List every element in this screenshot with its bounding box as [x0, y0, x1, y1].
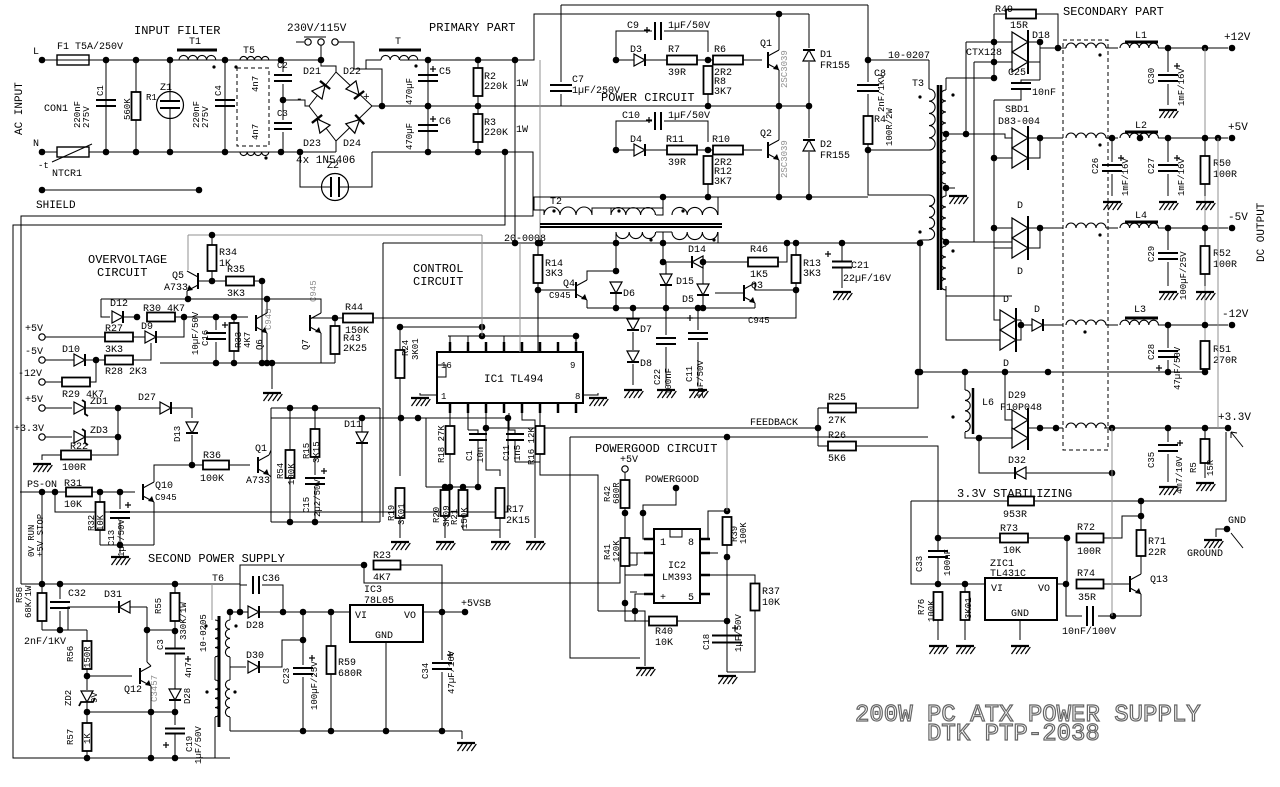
wire to L5c	[1040, 227, 1063, 229]
wire pin16 up	[449, 336, 451, 342]
wire R15 bottom	[314, 457, 316, 475]
svg-text:R15: R15	[302, 443, 312, 459]
wire Q13 emitter	[1140, 594, 1142, 616]
capacitor C19	[165, 729, 185, 734]
junction	[328, 609, 335, 616]
svg-text:D: D	[1017, 201, 1023, 212]
svg-text:L3: L3	[1134, 305, 1146, 316]
junction	[1109, 425, 1116, 432]
wire C32 bottom	[59, 611, 61, 630]
svg-text:680R: 680R	[338, 669, 362, 680]
svg-text:R7: R7	[668, 45, 680, 56]
junction	[439, 609, 446, 616]
junction	[1055, 45, 1062, 52]
svg-text:2nF/1KV: 2nF/1KV	[877, 74, 887, 112]
svg-text:35R: 35R	[1078, 593, 1096, 604]
diode D28 aux	[169, 689, 181, 700]
wire R26 out	[856, 446, 938, 538]
wire ic top rail	[400, 326, 482, 328]
wire to R37	[710, 575, 755, 584]
wire shield	[42, 189, 199, 191]
wire Dn12 o2	[1016, 330, 1021, 340]
wire D18 in2	[974, 61, 1012, 63]
svg-text:D83-004: D83-004	[998, 117, 1040, 128]
IC2 notch	[670, 529, 682, 537]
wire feedback horizontal	[486, 427, 818, 429]
wire R58 top	[41, 584, 43, 593]
svg-text:CTX128: CTX128	[966, 48, 1002, 59]
resistor R54	[286, 450, 295, 478]
wire T6 sec top	[229, 612, 231, 620]
IC2 right pin	[700, 538, 710, 541]
junction	[475, 149, 482, 156]
wire R46 up	[778, 243, 787, 262]
svg-text:L2: L2	[1135, 121, 1147, 132]
node GND	[1224, 526, 1231, 533]
junction	[475, 484, 482, 491]
junction	[196, 187, 203, 194]
wire Q10 collector	[154, 465, 180, 482]
junction	[144, 627, 151, 634]
svg-text:1W: 1W	[516, 79, 528, 90]
wire C22 top	[665, 308, 667, 335]
ground C13	[111, 557, 130, 565]
wire T2 sec tap	[662, 232, 664, 243]
wire Q3 base	[715, 292, 744, 294]
wire R33 bottom	[233, 351, 235, 363]
wire second supply rail	[21, 565, 364, 584]
phase dot	[234, 65, 237, 68]
wire to choke T	[366, 60, 381, 69]
svg-text:C25: C25	[1008, 68, 1026, 79]
phase dot	[552, 209, 555, 212]
junction	[1215, 135, 1222, 142]
svg-text:+5V: +5V	[1228, 122, 1248, 134]
junction	[776, 103, 783, 110]
svg-text:D28: D28	[183, 688, 193, 704]
svg-text:39R: 39R	[668, 68, 686, 79]
inductor L5 winding -5V	[1066, 223, 1106, 228]
wire C9 right	[664, 31, 708, 52]
terminal +5V	[39, 334, 45, 340]
wire feedback tie	[817, 408, 819, 446]
svg-text:R37: R37	[762, 587, 780, 598]
wire SBD1 out2	[1028, 138, 1040, 158]
phase dot	[1098, 233, 1101, 236]
wire T3 tap4 mid	[945, 242, 947, 246]
wire zd1 to d27	[86, 407, 160, 409]
wire R22 left	[42, 455, 61, 460]
ground pin5	[526, 542, 545, 550]
junction	[962, 369, 969, 376]
wire T3 center	[945, 188, 947, 196]
wire C2 top	[282, 60, 284, 72]
junction	[84, 755, 91, 762]
svg-text:IC3: IC3	[364, 585, 382, 596]
phase dot	[918, 95, 921, 98]
junction	[1064, 535, 1071, 542]
wire zd2 bottom	[86, 703, 88, 712]
wire C21 bottom	[841, 268, 843, 288]
junction	[312, 519, 319, 526]
svg-text:OVERVOLTAGE: OVERVOLTAGE	[88, 253, 167, 267]
junction	[535, 240, 542, 247]
wire Dn12 o1	[1016, 319, 1021, 321]
wire to R25	[818, 407, 828, 409]
resistor R33	[230, 323, 239, 351]
junction	[278, 57, 285, 64]
wire pin12 gray	[519, 243, 521, 352]
wire C26 bottom	[1111, 174, 1113, 196]
wire Q12 collector	[147, 662, 151, 666]
wire R23 bypass	[364, 553, 644, 583]
wire IC2 pin8a	[708, 538, 710, 540]
resistor R26	[828, 442, 856, 451]
svg-text:CIRCUIT: CIRCUIT	[413, 275, 463, 289]
wire pin5 gnd	[522, 413, 535, 538]
svg-text:R19: R19	[387, 505, 397, 521]
junction	[865, 147, 872, 154]
svg-text:SHIELD: SHIELD	[36, 200, 76, 212]
svg-text:+5V STOP: +5V STOP	[36, 514, 46, 557]
diode D7	[627, 319, 639, 330]
wire Q12 emitter down	[150, 712, 152, 758]
diode D30	[248, 661, 259, 673]
resistor R51	[1201, 341, 1210, 369]
wire ic top rail 2	[448, 335, 576, 337]
svg-text:10K: 10K	[655, 638, 673, 649]
wire D12 to R30	[124, 316, 137, 318]
wire T3 center tap	[946, 187, 955, 189]
capacitor C11 polarized	[688, 333, 708, 339]
resistor R55	[171, 593, 180, 621]
svg-text:47µF/50V: 47µF/50V	[1173, 346, 1183, 390]
svg-text:8: 8	[575, 392, 580, 402]
resistor R15	[311, 429, 320, 457]
wire D32 in	[979, 438, 1014, 473]
wire pin9 up	[575, 336, 577, 342]
resistor R28	[105, 356, 133, 365]
svg-text:8: 8	[688, 538, 694, 549]
transistor Q13	[1130, 574, 1141, 594]
junction	[227, 609, 234, 616]
svg-text:10-0205: 10-0205	[199, 614, 209, 652]
wire sense to ZIC1	[911, 501, 985, 584]
wire IC3 bottom rail	[230, 730, 462, 732]
transformer T3 secondary c	[941, 196, 947, 240]
thermistor NTCR1	[57, 147, 89, 157]
wire R41 bottom	[624, 566, 626, 603]
diode D2	[803, 140, 815, 151]
node N	[39, 149, 46, 156]
svg-text:POWERGOOD: POWERGOOD	[645, 475, 699, 486]
capacitor C3 4n7	[165, 649, 185, 654]
phase dot	[951, 415, 954, 418]
svg-text:C33: C33	[915, 556, 925, 572]
wire R44 to control	[373, 290, 796, 318]
wire R20 top	[444, 487, 446, 490]
svg-text:Q5: Q5	[172, 271, 184, 282]
ground R52	[1196, 292, 1215, 300]
junction	[502, 149, 509, 156]
svg-text:C23: C23	[282, 668, 292, 684]
ground R19	[391, 542, 410, 550]
svg-text:R54: R54	[276, 463, 286, 479]
junction	[622, 600, 629, 607]
resistor R42	[621, 480, 630, 508]
phase dot	[951, 249, 954, 252]
wire T3 p return	[868, 149, 929, 151]
wire R4 bottom	[867, 144, 869, 150]
capacitor C21	[832, 262, 852, 268]
svg-text:1K5: 1K5	[750, 270, 768, 281]
resistor R16	[536, 426, 545, 454]
wire R59 top	[330, 612, 332, 646]
svg-text:100K: 100K	[927, 600, 937, 622]
terminal -12V	[1229, 322, 1236, 329]
capacitor C1 10n	[469, 434, 487, 440]
wire Q6 collector	[266, 299, 268, 313]
junction	[1109, 470, 1116, 477]
wire R52 top	[1204, 228, 1206, 246]
diode D31	[119, 601, 130, 613]
svg-text:4m7/10V: 4m7/10V	[1175, 456, 1185, 494]
svg-text:R23: R23	[373, 551, 391, 562]
junction	[300, 609, 307, 616]
transistor Q5	[187, 271, 198, 291]
svg-text:VI: VI	[355, 611, 367, 622]
inductor L4 winding	[1120, 223, 1158, 228]
wire Z2 right	[349, 152, 372, 187]
wire D29 in top	[1005, 372, 1012, 420]
wire aux rail	[663, 242, 920, 244]
ground IC3	[457, 743, 476, 751]
svg-text:SBD1: SBD1	[1005, 105, 1029, 116]
svg-text:C9: C9	[627, 21, 639, 32]
inductor L1 winding	[1120, 43, 1158, 48]
wire C22 bottom	[665, 347, 667, 385]
junction	[398, 415, 405, 422]
wire D5 bottom	[702, 296, 704, 308]
wire sense rail a	[911, 500, 1008, 502]
svg-text:D8: D8	[640, 359, 652, 370]
svg-text:GROUND: GROUND	[1187, 549, 1223, 560]
transformer T2 winding 1	[544, 207, 592, 215]
phase dot	[951, 93, 954, 96]
junction	[57, 627, 64, 634]
svg-text:1µF/50V: 1µF/50V	[668, 20, 710, 32]
diode D6	[610, 282, 622, 293]
wire Q1a collector	[269, 450, 271, 455]
resistor R23	[374, 561, 401, 570]
wire D15 bottom	[665, 286, 667, 308]
junction	[505, 415, 512, 422]
svg-text:3K01: 3K01	[964, 597, 974, 619]
plus sign	[1177, 442, 1183, 444]
capacitor C22	[656, 338, 676, 344]
junction	[237, 609, 244, 616]
wire R16 bottom	[539, 454, 541, 462]
svg-text:D24: D24	[343, 139, 361, 150]
wire R8 bottom	[707, 94, 709, 106]
svg-text:INPUT FILTER: INPUT FILTER	[134, 24, 220, 38]
junction	[425, 57, 432, 64]
ground C27	[1159, 202, 1178, 210]
wire IC2 pin2	[637, 553, 644, 565]
wire C8 top	[867, 60, 869, 82]
junction	[724, 554, 731, 561]
diode D1	[803, 50, 815, 61]
wire R20 bottom	[444, 516, 446, 538]
IC2 left pin	[644, 538, 654, 541]
surge arrester Z2	[322, 174, 349, 201]
svg-text:NTCR1: NTCR1	[52, 169, 82, 180]
IC1 bottom pin 5	[521, 403, 524, 413]
wire R35 down	[261, 281, 263, 363]
wire C19 bottom	[174, 734, 176, 758]
transistor Q1	[768, 50, 779, 70]
svg-text:R73: R73	[1000, 524, 1018, 535]
wire R74 right	[1104, 583, 1130, 585]
junction	[39, 489, 46, 496]
svg-text:C30: C30	[1147, 68, 1157, 84]
wire Q1 collector	[778, 14, 780, 50]
svg-text:10K: 10K	[96, 514, 106, 531]
wire tap tie 2	[946, 241, 974, 243]
resistor R73	[1000, 534, 1028, 543]
svg-text:2SC3039: 2SC3039	[780, 140, 790, 178]
junction	[705, 57, 712, 64]
wire -5V rail	[1158, 227, 1228, 229]
svg-text:3K15: 3K15	[312, 441, 322, 463]
junction	[462, 609, 469, 616]
svg-text:GND: GND	[1228, 516, 1246, 527]
svg-text:3K3: 3K3	[105, 345, 123, 356]
junction	[660, 194, 667, 201]
wire pin16 gnd	[420, 393, 437, 395]
wire zd3 right	[86, 436, 118, 438]
wire R73 right	[1028, 537, 1067, 539]
switch SW1 contact a	[305, 39, 311, 45]
IC1 pin1 notch	[437, 365, 446, 377]
junction	[1138, 498, 1145, 505]
junction	[991, 75, 998, 82]
diode D8	[627, 351, 639, 362]
junction	[483, 425, 490, 432]
svg-text:T1: T1	[189, 37, 201, 48]
wire R27 to D9	[133, 336, 145, 338]
ground IC1 right	[589, 398, 608, 406]
wire C1 branch	[105, 60, 107, 152]
wire to T3	[868, 59, 929, 61]
svg-text:2K25: 2K25	[343, 344, 367, 355]
ground R17	[491, 542, 510, 550]
svg-text:+: +	[363, 92, 370, 104]
wire D2 bottom	[808, 152, 810, 197]
wire T3 tap4	[946, 241, 1012, 243]
svg-text:R20: R20	[432, 507, 442, 523]
svg-text:C945: C945	[549, 291, 571, 301]
junction	[312, 405, 319, 412]
svg-text:5K6: 5K6	[828, 454, 846, 465]
svg-text:ZD3: ZD3	[90, 426, 108, 437]
junction	[1110, 613, 1117, 620]
resistor R25	[828, 404, 856, 413]
wire C11 bottom	[697, 342, 699, 385]
wire primary sense 1	[514, 60, 516, 243]
ground C22	[657, 390, 676, 398]
transistor Q12	[140, 666, 151, 686]
terminal -5V	[39, 357, 45, 363]
diode D single	[1032, 319, 1043, 331]
svg-text:3K3: 3K3	[803, 269, 821, 280]
wire IC2 pin4	[635, 594, 644, 611]
wire R31 right	[92, 491, 135, 493]
capacitor C2	[274, 75, 292, 81]
inductor L1 core	[1125, 41, 1158, 44]
junction	[991, 155, 998, 162]
node L	[39, 57, 46, 64]
wire R71 top	[1140, 501, 1142, 530]
wire C11 top	[697, 308, 699, 330]
junction	[300, 728, 307, 735]
IC2 left pin	[644, 593, 654, 596]
wire T2 sec right	[718, 232, 787, 243]
junction	[1202, 135, 1209, 142]
terminal +3.3V	[1225, 425, 1232, 432]
junction	[425, 103, 432, 110]
capacitor C15	[305, 478, 325, 484]
transformer T2 core bar2	[540, 226, 722, 228]
svg-text:Q2: Q2	[760, 129, 772, 140]
wire C2-C3	[282, 84, 284, 120]
svg-text:D13: D13	[173, 426, 183, 442]
wire 3.3V fb	[1111, 428, 1113, 616]
wire R43 bottom	[334, 354, 336, 363]
resistor R71	[1137, 530, 1146, 556]
diode D4	[634, 144, 645, 156]
wire C35 top	[1167, 428, 1169, 442]
svg-text:R72: R72	[1077, 523, 1095, 534]
capacitor C16	[206, 333, 226, 339]
terminal +5V b	[39, 405, 45, 411]
inductor L4 core	[1125, 221, 1158, 224]
svg-text:T6: T6	[212, 574, 224, 585]
svg-text:D1: D1	[820, 50, 832, 61]
diode D3	[634, 54, 645, 66]
wire C3 bottom	[282, 132, 284, 152]
phase dot	[205, 690, 208, 693]
wire R24 top	[399, 327, 401, 350]
svg-text:D15: D15	[676, 277, 694, 288]
wire R50 top	[1204, 138, 1206, 156]
svg-text:D4: D4	[630, 135, 642, 146]
wire D31 right	[130, 606, 147, 608]
wire to R36	[180, 464, 203, 466]
wire C29 bottom	[1167, 262, 1169, 286]
junction	[52, 489, 59, 496]
resistor R49	[1006, 10, 1036, 19]
ground C29	[1159, 292, 1178, 300]
wire -5V sense	[45, 359, 74, 361]
wire T2 w3 right	[717, 197, 719, 215]
ground IC1 left	[411, 398, 430, 406]
wire R15 top	[314, 408, 316, 429]
svg-text:R71: R71	[1148, 537, 1166, 548]
transformer T1 core	[177, 49, 217, 52]
wire pin8 gnd	[583, 393, 598, 395]
diode D29 (dual)	[1012, 410, 1028, 430]
